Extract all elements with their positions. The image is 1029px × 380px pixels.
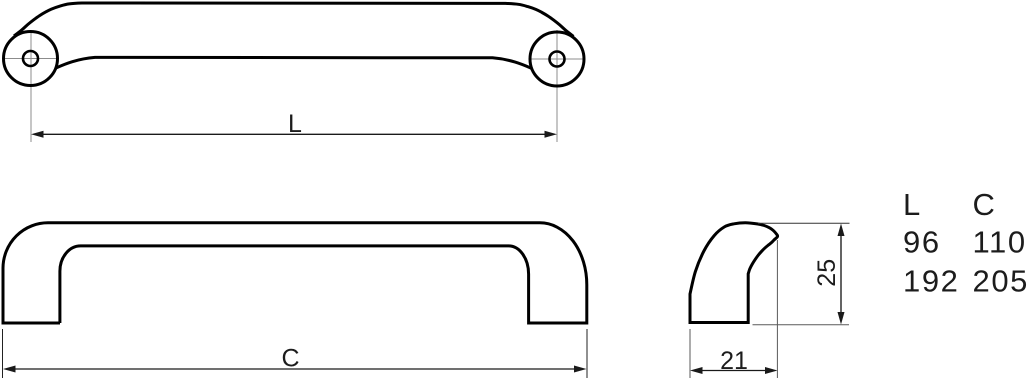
handle bottom contour (top view) <box>56 57 532 68</box>
svg-text:21: 21 <box>720 347 748 375</box>
centerline vertical left boss / L extension <box>30 30 32 142</box>
svg-text:25: 25 <box>813 259 841 287</box>
dimension line L <box>36 133 552 135</box>
right boss outer circle <box>530 32 584 86</box>
svg-text:L: L <box>288 110 302 138</box>
left screw hole <box>23 51 38 66</box>
left boss outer circle <box>4 32 58 86</box>
right screw hole <box>550 52 565 67</box>
svg-text:192: 192 <box>903 264 960 299</box>
arrow 25 bottom <box>838 312 845 325</box>
svg-text:205: 205 <box>973 264 1029 299</box>
handle top contour (top view) <box>14 3 574 36</box>
dimension line 25 <box>840 228 842 320</box>
arrow 21 right <box>765 367 778 374</box>
arrow L left <box>31 131 44 138</box>
25 extension line bottom <box>753 324 850 326</box>
21 extension line right <box>776 240 778 378</box>
arrow L right <box>545 131 558 138</box>
25 extension line top <box>758 222 850 224</box>
svg-text:96: 96 <box>903 225 941 260</box>
svg-text:L: L <box>903 187 922 222</box>
21 extension line left <box>689 329 691 378</box>
dimension line C <box>8 368 582 370</box>
arrow C left <box>3 366 16 373</box>
C extension line right <box>586 329 588 378</box>
svg-text:C: C <box>281 345 299 373</box>
centerline vertical right boss / L extension <box>556 30 558 142</box>
C extension line left <box>2 329 4 378</box>
arrow 25 top <box>838 224 845 237</box>
arrow 21 left <box>690 367 703 374</box>
dimension line 21 <box>695 370 773 372</box>
svg-text:110: 110 <box>973 225 1027 260</box>
handle side profile <box>690 223 778 323</box>
svg-text:C: C <box>973 187 997 222</box>
centerline horizontal right boss <box>529 58 585 60</box>
handle front outline <box>3 223 587 323</box>
centerline horizontal left boss <box>3 58 59 60</box>
arrow C right <box>574 366 587 373</box>
